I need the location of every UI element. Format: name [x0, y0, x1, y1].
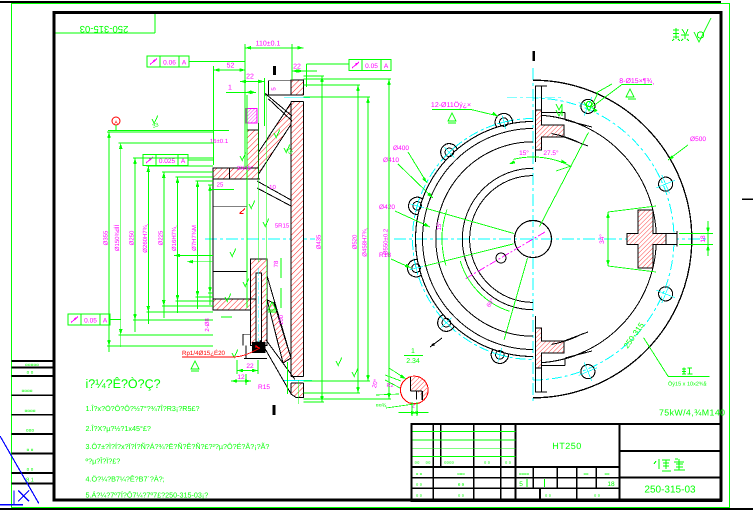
dim 52	[214, 69, 246, 71]
right column rows	[620, 450, 722, 452]
svg-text:12-Ø11Öý¿×: 12-Ø11Öý¿×	[431, 101, 471, 109]
small red tick mark	[240, 209, 246, 214]
hole centerline cross	[410, 204, 424, 208]
fcf 0.05 A	[349, 60, 362, 71]
section mark I top	[273, 66, 276, 75]
section tick top	[533, 51, 535, 61]
svg-text:12: 12	[237, 374, 245, 381]
svg-text:2.34: 2.34	[406, 358, 420, 365]
svg-text:Rp1/4Ø15¿É20: Rp1/4Ø15¿É20	[182, 349, 226, 357]
roughness marks left view	[152, 116, 158, 124]
keyway label bottom right	[644, 338, 669, 377]
svg-text:25: 25	[217, 182, 224, 189]
magenta pin hole centerline diagonal	[465, 232, 545, 279]
svg-text:22: 22	[246, 74, 254, 81]
inner angle dims left half	[425, 208, 513, 233]
web section BOTTOM (hatched)	[267, 300, 291, 363]
svg-text:3X45°: 3X45°	[237, 165, 254, 172]
left view centerline	[205, 238, 315, 240]
svg-text:A: A	[103, 318, 108, 325]
svg-text:Ø7H7¾M: Ø7H7¾M	[191, 225, 198, 251]
dim line Ø250	[134, 158, 136, 332]
upper block green rows	[413, 430, 516, 432]
bolt hole slot top in flange	[291, 95, 305, 102]
dim line Ø225	[163, 172, 165, 318]
bolt hole slot bottom in flange	[291, 376, 305, 383]
svg-text:4.Ö?¼?B7¼?Ê?B7´?À?;: 4.Ö?¼?B7¼?Ê?B7´?À?;	[86, 474, 165, 483]
svg-text:¤ ¤: ¤ ¤	[594, 493, 601, 498]
hole D11 at 254 deg	[496, 351, 505, 360]
right margin center tick	[742, 198, 753, 200]
hole D11 at 224 deg	[442, 318, 451, 327]
svg-text:15°: 15°	[436, 221, 443, 231]
svg-text:3.Ô7±?Ì?Í?x?Ï?Í?Ñ?Á?¾?Ë?Ñ?Ê?Ñ?: 3.Ô7±?Ì?Í?x?Ï?Í?Ñ?Á?¾?Ë?Ñ?Ê?Ñ?£?²?µ?Ô?É?…	[86, 442, 270, 451]
groove-hub connectors	[246, 123, 248, 130]
dim 1	[226, 91, 256, 93]
svg-text:Ø410: Ø410	[383, 157, 399, 164]
svg-text:Ø400: Ø400	[393, 145, 409, 152]
lobe boss at 164 deg	[409, 197, 423, 214]
svg-text:Ø550±0.2: Ø550±0.2	[383, 228, 390, 255]
key slot right extension	[666, 234, 677, 245]
bolt holes right half 8-D15	[659, 177, 673, 191]
small leader top-left of detail	[389, 368, 406, 379]
pin hole	[496, 253, 506, 263]
fcf 0.025 A	[143, 155, 156, 166]
title box top-left: part number 250-315-03 rotated 180	[56, 32, 156, 34]
dim line Ø355	[108, 132, 110, 352]
title block outer	[412, 424, 721, 501]
hub section BOTTOM (hatched)	[250, 259, 267, 345]
hole D11 at 194 deg	[412, 264, 421, 273]
svg-text:¤ ¤: ¤ ¤	[458, 482, 465, 487]
inner cavity conical lines top	[257, 181, 291, 200]
lobe boss at 134 deg	[441, 144, 458, 161]
section mark I bottom	[273, 405, 276, 415]
svg-text:Ø458H7¾¸: Ø458H7¾¸	[362, 227, 369, 256]
title block vertical divider	[619, 424, 621, 501]
svg-text:¤¤¤: ¤¤¤	[26, 428, 35, 434]
detail black lines	[410, 377, 412, 391]
hub bore lines top	[246, 130, 248, 168]
fcf 0.05 A low	[68, 314, 81, 325]
svg-text:Ø260H7¾¸: Ø260H7¾¸	[142, 223, 149, 252]
local section BOTTOM: rib cross-section with red hatch	[536, 328, 565, 368]
svg-text:¤ ¤: ¤ ¤	[505, 460, 512, 465]
tube bore lines top	[213, 178, 260, 180]
svg-text:52: 52	[227, 63, 235, 70]
svg-text:110±0.1: 110±0.1	[256, 41, 281, 48]
lobe boss at 104 deg	[495, 113, 512, 127]
parts list strip rows	[12, 360, 55, 362]
svg-text:¤ ¤: ¤ ¤	[416, 482, 423, 487]
lobe boss at 224 deg	[438, 315, 455, 332]
bottom window edge line	[0, 508, 753, 510]
small green cast marks near top section	[556, 104, 562, 116]
datum flag	[112, 117, 120, 125]
34 deg angular dimension	[607, 212, 609, 266]
svg-text:1: 1	[411, 348, 415, 355]
top window edge line	[0, 1, 721, 3]
svg-text:¤¤: ¤¤	[425, 460, 431, 465]
lobe boss at 194 deg	[407, 260, 421, 277]
datum extension line	[112, 130, 229, 132]
svg-text:¤ ¤: ¤ ¤	[27, 370, 34, 376]
tube bore lines bottom	[213, 298, 256, 300]
svg-text:22: 22	[246, 363, 254, 370]
svg-text:78: 78	[273, 260, 280, 267]
svg-text:0.06: 0.06	[163, 60, 176, 67]
strip blue revision marks	[0, 436, 39, 503]
hole centerline cross	[444, 147, 454, 157]
svg-text:º?µ?Î?Ï?£?: º?µ?Î?Ï?£?	[86, 457, 121, 466]
lower block verticals	[432, 467, 434, 501]
cone seat diagonals	[265, 93, 292, 116]
bolt circle left half cyan	[413, 119, 533, 360]
svg-text:¤¤: ¤¤	[414, 460, 420, 465]
tube bottom wall (hatched)	[213, 299, 250, 310]
flange disc section hatched (D500)	[291, 80, 304, 398]
svg-text:¤¤¤: ¤¤¤	[457, 472, 465, 477]
svg-text:Ø500: Ø500	[690, 136, 706, 143]
dim line Ø260H7¾¸	[147, 166, 149, 324]
svg-text:1.Î?x?Ö?Ô?Ô?½7°?¾7Î?R3¡?R5£?: 1.Î?x?Ö?Ô?Ô?½7°?¾7Î?R3¡?R5£?	[86, 404, 200, 413]
bore dim lines inner	[174, 255, 213, 257]
local section RIGHT: key/rib cross with red hatch	[627, 210, 677, 268]
hole D11 at 164 deg	[413, 202, 422, 211]
top section profile steps	[542, 112, 566, 114]
svg-text:5: 5	[519, 481, 523, 488]
svg-text:¤¤: ¤¤	[604, 472, 610, 477]
central bore circle	[515, 221, 552, 258]
svg-text:Ø520: Ø520	[352, 234, 359, 249]
svg-text:16±0.1: 16±0.1	[210, 138, 229, 145]
web section TOP (hatched diagonal band)	[248, 103, 291, 177]
dim 22 top-right	[292, 70, 317, 72]
svg-text:¤¤¤¤¤: ¤¤¤¤¤	[25, 363, 39, 369]
svg-text:¤¤¤¤: ¤¤¤¤	[519, 472, 530, 477]
hole D11 at 134 deg	[445, 148, 454, 157]
dim 110+-0.1	[245, 47, 304, 49]
dim line Ø16H7¾¸	[177, 177, 179, 313]
svg-text:¤ ¤: ¤ ¤	[458, 493, 465, 498]
svg-text:¤ ¤: ¤ ¤	[27, 448, 34, 454]
svg-text:5.Á?¼?7º7Í?Ô7¼?7º7£?250-315-03: 5.Á?¼?7º7Í?Ô7¼?7º7£?250-315-03¡?	[86, 491, 209, 500]
right view centerline horizontal	[394, 238, 708, 240]
dim line Ø7H7¾M	[197, 181, 199, 309]
15 and 27.5 deg angle dims at top	[513, 157, 571, 167]
hole centerline cross	[498, 348, 502, 362]
inner rim arc right half	[537, 115, 656, 363]
svg-text:¤ ¤: ¤ ¤	[545, 493, 552, 498]
svg-text:0.05: 0.05	[365, 63, 378, 70]
svg-text:2.Î?X?µ?½?1x45°£?: 2.Î?X?µ?½?1x45°£?	[86, 424, 151, 433]
radial line for 27.5	[539, 133, 588, 227]
svg-text:18: 18	[700, 235, 707, 243]
svg-text:¤ ¤: ¤ ¤	[416, 472, 423, 477]
lower rows	[412, 477, 620, 479]
svg-text:22: 22	[293, 64, 301, 71]
svg-text:A: A	[384, 63, 389, 70]
black plug at hole bottom	[252, 342, 265, 353]
svg-text:8-Ø15×¶¾¸: 8-Ø15×¶¾¸	[619, 77, 654, 85]
hub section TOP (hatched)	[247, 130, 259, 168]
svg-text:¤¤¤¤: ¤¤¤¤	[21, 389, 32, 395]
dim line Ø520	[357, 85, 359, 393]
dim line Ø435	[321, 76, 323, 402]
inner circles left half	[436, 142, 533, 336]
hole D11 at 104 deg	[500, 118, 509, 127]
check mark symbol near top hole	[584, 93, 598, 111]
svg-text:0.025: 0.025	[159, 158, 176, 165]
tube step vertical	[228, 168, 230, 179]
bottom small dims	[237, 370, 258, 372]
svg-text:¤ ¤: ¤ ¤	[416, 493, 423, 498]
left grid: upper block verticals	[432, 424, 434, 467]
svg-text:2-Ø8: 2-Ø8	[204, 318, 211, 332]
svg-text:Ø150¾dÌÍ: Ø150¾dÌÍ	[113, 224, 121, 251]
surface finish symbol top-right (qi yu + check)	[694, 18, 711, 42]
magenta fine-hatch block (seal groove)	[246, 109, 257, 124]
dim line aux	[209, 185, 211, 305]
svg-text:Ø420: Ø420	[379, 204, 395, 211]
svg-text:¤ ¤: ¤ ¤	[484, 460, 491, 465]
triangle mark under label	[626, 89, 636, 99]
freehand black arrow mark	[430, 338, 442, 347]
svg-text:0.05: 0.05	[84, 318, 97, 325]
svg-text:18: 18	[607, 481, 615, 488]
dim line Ø458H7¾¸	[367, 97, 369, 381]
svg-text:¤¤¾: ¤¤¾	[376, 403, 387, 409]
short arcs joining top section	[552, 134, 584, 145]
bolt circle right half cyan	[533, 98, 674, 380]
dim line Ø150¾dÌÍ	[120, 143, 122, 347]
svg-text:Ø250: Ø250	[129, 230, 136, 245]
bolt circle top centerline	[507, 97, 562, 99]
svg-text:¤ ¤: ¤ ¤	[27, 467, 34, 473]
svg-text:34°: 34°	[599, 234, 606, 244]
svg-text:75kW/4,¾M140: 75kW/4,¾M140	[659, 408, 725, 418]
svg-text:A: A	[181, 158, 186, 165]
svg-text:5R15: 5R15	[275, 223, 290, 230]
svg-text:250-315-03: 250-315-03	[80, 23, 129, 34]
mid heavy line	[412, 466, 620, 468]
lobe boss at 254 deg	[491, 349, 508, 363]
spigot steps bottom	[243, 333, 251, 335]
svg-text:¤¤¤¤: ¤¤¤¤	[444, 460, 455, 465]
dim 22 mid	[240, 81, 265, 83]
svg-text:1: 1	[228, 85, 232, 92]
svg-text:Ø435: Ø435	[316, 234, 323, 249]
svg-text:A: A	[182, 60, 187, 67]
svg-text:27.5°: 27.5°	[543, 150, 559, 157]
svg-text:i?¼?Ê?Ò?Ç?: i?¼?Ê?Ò?Ç?	[86, 377, 161, 391]
left half lobed outline base circle	[416, 122, 533, 357]
flange left face between webs	[290, 124, 292, 341]
fcf 0.06 A	[147, 56, 160, 67]
dim line Ø550±0.2	[388, 79, 390, 399]
green triangle cast mark in section	[268, 302, 276, 312]
hole centerline cross	[441, 318, 451, 328]
tube top wall (hatched)	[213, 168, 259, 179]
right view centerline vertical	[532, 68, 534, 402]
local section TOP: rib cross-section with red hatch	[536, 110, 565, 150]
svg-text:HT250: HT250	[552, 441, 582, 451]
svg-text:15°: 15°	[519, 150, 529, 157]
svg-text:100: 100	[278, 314, 285, 325]
svg-text:Ø16H7¾¸: Ø16H7¾¸	[171, 225, 178, 251]
outer circle right half (D500 rim)	[533, 80, 692, 398]
hole centerline cross	[409, 267, 423, 270]
small hole in bottom hub	[256, 273, 262, 342]
svg-text:10: 10	[269, 184, 276, 191]
hole centerline cross	[502, 115, 505, 129]
svg-text:R15: R15	[258, 384, 270, 391]
svg-text:250-315-03: 250-315-03	[644, 485, 696, 496]
18 dim at right	[707, 221, 709, 256]
tube left face	[212, 168, 214, 310]
detail view circle	[401, 376, 429, 404]
cavity diagonals bottom	[267, 276, 291, 358]
svg-text:Öý15 x 10x2¾§: Öý15 x 10x2¾§	[668, 381, 707, 388]
top seal steps	[264, 81, 266, 95]
left half inner rim arc	[423, 129, 533, 350]
svg-text:¤¤: ¤¤	[583, 472, 589, 477]
part name glyphs (duan gai)	[654, 459, 685, 471]
svg-text:Ø225: Ø225	[157, 230, 164, 245]
svg-text:Ø355: Ø355	[103, 230, 110, 245]
svg-text:¤¤¤¤: ¤¤¤¤	[24, 409, 35, 415]
